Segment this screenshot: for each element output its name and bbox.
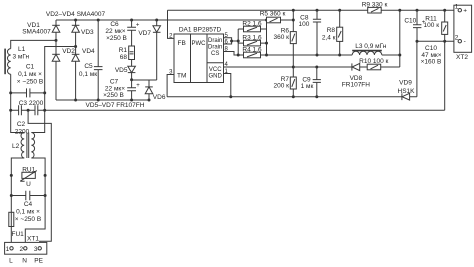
svg-text:×250 В: ×250 В: [106, 35, 127, 42]
svg-text:1: 1: [6, 246, 10, 253]
svg-text:R9 330 к: R9 330 к: [362, 1, 388, 8]
diode VD8: [342, 63, 370, 88]
svg-text:22 мк×: 22 мк×: [105, 28, 125, 35]
wire sense left rail: [238, 29, 243, 55]
svg-text:1: 1: [455, 4, 459, 11]
svg-text:VD3: VD3: [81, 29, 94, 36]
capacitor C8: [298, 10, 321, 55]
svg-text:RU1: RU1: [22, 166, 35, 173]
wire top FB line: [168, 9, 459, 11]
resistor R5: [260, 11, 286, 23]
pin number 5: [225, 33, 229, 39]
pin number 6: [225, 39, 229, 45]
resistor R6: [274, 27, 297, 67]
capacitor C7: [103, 78, 140, 100]
svg-text:0,1 мк ×: 0,1 мк ×: [16, 209, 40, 216]
label VD5-VD7: [86, 102, 145, 109]
svg-text:VD2–VD4 SMA4007: VD2–VD4 SMA4007: [46, 11, 106, 18]
svg-text:R2 1,6: R2 1,6: [242, 20, 262, 27]
svg-text:100 к: 100 к: [424, 22, 440, 29]
svg-text:VD2: VD2: [62, 48, 75, 55]
svg-text:R1: R1: [119, 47, 128, 54]
wire drain pins tie: [224, 38, 239, 44]
svg-text:PE: PE: [34, 258, 43, 265]
capacitor C6: [105, 20, 139, 46]
svg-text:U: U: [26, 181, 31, 188]
svg-text:× ~250 В: × ~250 В: [17, 79, 43, 86]
svg-text:GND: GND: [209, 73, 223, 79]
wire SW line: [267, 10, 400, 67]
svg-text:200 к: 200 к: [274, 83, 290, 90]
label bridge VD2-VD4: [46, 11, 106, 18]
fuse FU1: [9, 212, 24, 238]
svg-text:+: +: [463, 8, 467, 15]
diode VD6: [145, 80, 166, 101]
svg-text:N: N: [22, 258, 27, 265]
wire AC input neutral to bridge: [45, 47, 76, 111]
resistor R10: [359, 58, 388, 70]
wire left rail: [11, 74, 25, 246]
svg-text:R10 100 к: R10 100 к: [359, 58, 388, 65]
svg-text:R4 1,6: R4 1,6: [242, 46, 262, 53]
wire bottom minus rail: [56, 99, 149, 101]
svg-text:+: +: [136, 22, 140, 28]
pin number 3: [169, 70, 173, 76]
svg-text:C6: C6: [110, 21, 119, 28]
resistor R7: [274, 67, 297, 97]
svg-text:L: L: [9, 258, 13, 265]
wire CS pin: [224, 52, 239, 56]
wire sense right rail: [261, 20, 267, 55]
svg-text:SMA4007: SMA4007: [22, 28, 51, 35]
svg-text:VD7: VD7: [138, 30, 151, 37]
svg-text:TM: TM: [177, 73, 186, 80]
wire R5 right to FB divider: [281, 10, 294, 31]
svg-text:DA1 BP2857D: DA1 BP2857D: [179, 26, 222, 33]
svg-text:XT2: XT2: [456, 54, 468, 61]
wire GND pin elbow: [224, 74, 231, 97]
svg-text:2: 2: [19, 246, 23, 253]
svg-text:FR107FH: FR107FH: [342, 81, 370, 88]
resistor R1: [119, 46, 135, 61]
pin number 8: [225, 47, 229, 53]
svg-text:XT1: XT1: [27, 236, 39, 243]
svg-text:VD4: VD4: [82, 48, 95, 55]
diode VD3: [72, 20, 94, 47]
svg-text:VD5: VD5: [115, 67, 128, 74]
svg-text:×250 В: ×250 В: [103, 92, 124, 99]
wire TM pin elbow: [167, 75, 174, 97]
diode VD2: [52, 40, 75, 100]
terminal block XT2: [454, 4, 472, 62]
svg-text:2: 2: [455, 35, 459, 42]
svg-text:C10: C10: [404, 18, 416, 25]
resistor R8: [322, 10, 343, 55]
capacitor C2: [15, 105, 38, 135]
svg-text:360 к: 360 к: [274, 34, 290, 41]
capacitor C9: [301, 67, 321, 97]
pin number 4: [225, 62, 229, 68]
svg-text:3: 3: [34, 246, 38, 253]
pin number 2: [169, 34, 173, 40]
capacitor C10: [404, 10, 441, 65]
capacitor C3: [19, 100, 44, 115]
svg-text:HS1K: HS1K: [398, 88, 416, 95]
resistor R11: [424, 10, 448, 41]
svg-text:0,1 мк ×: 0,1 мк ×: [18, 71, 42, 78]
wire top +bus rail: [56, 19, 267, 21]
svg-text:L3 0,9 мГн: L3 0,9 мГн: [355, 43, 387, 50]
inductor L2: [12, 133, 35, 159]
svg-text:CS: CS: [211, 51, 219, 57]
svg-text:VD6: VD6: [153, 94, 166, 101]
svg-text:0,1 мк: 0,1 мк: [79, 71, 97, 78]
capacitor C1: [11, 64, 45, 98]
svg-text:C7: C7: [110, 78, 119, 85]
diode VD5: [115, 60, 136, 80]
svg-text:Drain: Drain: [208, 38, 222, 44]
svg-text:68: 68: [120, 54, 128, 61]
svg-text:VCC: VCC: [209, 67, 222, 73]
svg-text:FB: FB: [178, 40, 186, 47]
svg-text:+: +: [136, 83, 140, 89]
wire VCC line: [224, 66, 400, 68]
svg-text:C5: C5: [84, 63, 93, 70]
svg-text:R3 1,6: R3 1,6: [242, 35, 262, 42]
svg-text:VD9: VD9: [399, 79, 412, 86]
wire GND line: [167, 96, 417, 98]
IC DA1 BP2857D: [174, 26, 224, 82]
svg-text:С1: С1: [26, 64, 35, 71]
resistor R2: [242, 20, 262, 31]
svg-text:-: -: [464, 38, 466, 45]
wire FB pin elbow: [168, 10, 175, 38]
diode VD9: [398, 79, 416, 100]
svg-text:C4: C4: [24, 201, 33, 208]
svg-text:2,4 к: 2,4 к: [322, 34, 336, 41]
wire output minus long line: [11, 41, 458, 110]
resistor R9: [362, 1, 388, 13]
svg-text:C2: C2: [17, 121, 26, 128]
diode VD7: [132, 20, 161, 80]
svg-text:3 мГн: 3 мГн: [13, 54, 30, 61]
wire PE line: [28, 110, 51, 246]
svg-text:1 мк: 1 мк: [301, 83, 314, 90]
diode VD4: [72, 47, 95, 101]
wire AC input phase to bridge: [11, 40, 56, 48]
svg-text:FU1: FU1: [12, 231, 25, 238]
terminal block XT1: [5, 236, 47, 265]
svg-text:R8: R8: [327, 27, 336, 34]
resistor R4: [242, 46, 262, 57]
svg-text:100: 100: [298, 21, 309, 28]
svg-text:R5 360 к: R5 360 к: [260, 11, 286, 18]
svg-text:×160 В: ×160 В: [421, 59, 442, 66]
wire right rail: [25, 110, 45, 246]
svg-text:Drain: Drain: [208, 44, 222, 50]
node junction dots: [9, 9, 446, 197]
svg-text:VD5–VD7 FR107FH: VD5–VD7 FR107FH: [86, 102, 145, 109]
resistor R3: [242, 35, 262, 46]
pin number 1: [225, 69, 229, 75]
svg-text:L2: L2: [12, 143, 20, 150]
capacitor C4: [11, 191, 45, 223]
diode VD1: [22, 20, 60, 40]
svg-text:L1: L1: [18, 46, 26, 53]
varistor RU1: [20, 166, 37, 188]
inductor L1: [5, 46, 29, 74]
capacitor C5: [79, 20, 103, 100]
svg-text:× ~250 В: × ~250 В: [15, 216, 41, 223]
inductor L3: [352, 43, 387, 55]
svg-text:PWC: PWC: [192, 41, 207, 47]
svg-text:С3 2200: С3 2200: [19, 100, 44, 107]
